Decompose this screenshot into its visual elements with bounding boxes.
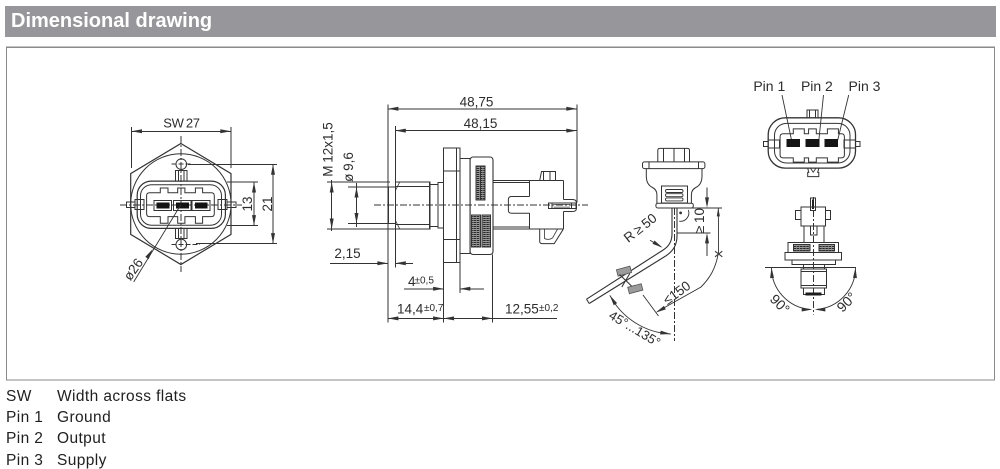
dimension 21 xyxy=(188,164,277,243)
connector block (side view) xyxy=(530,181,564,230)
bottom latch (side view) xyxy=(540,229,564,243)
right 90 deg arc xyxy=(815,268,860,316)
dimension >=10 xyxy=(678,188,723,257)
left front view group xyxy=(120,116,277,284)
dimension 13 xyxy=(227,182,258,226)
small view neck and thread xyxy=(801,265,827,288)
leader pin2 xyxy=(819,95,824,141)
cable xyxy=(587,208,678,304)
extension line flange left xyxy=(443,263,445,323)
leader pin3 xyxy=(838,95,849,141)
connector face outer oval xyxy=(768,118,855,168)
horizontal reference line xyxy=(765,267,856,269)
svg-text:21: 21 xyxy=(260,196,275,211)
ring section xyxy=(460,159,470,254)
connector face inner oval xyxy=(775,123,851,163)
label Pin 1 xyxy=(753,78,785,94)
step before flange xyxy=(438,183,444,229)
knurled housing section xyxy=(470,157,493,255)
svg-text:90°: 90° xyxy=(767,291,793,317)
pin 3 terminal (left view) xyxy=(192,200,210,210)
svg-text:2,15: 2,15 xyxy=(334,246,360,261)
centerline (side view) xyxy=(374,204,588,206)
dimension 48,15 xyxy=(395,116,577,133)
dimension 48,75 xyxy=(388,94,577,111)
hex flange outline SW27 xyxy=(131,144,231,265)
svg-text:ø 9,6: ø 9,6 xyxy=(341,152,356,182)
svg-text:Pin 3: Pin 3 xyxy=(849,78,881,94)
small view upper block xyxy=(796,207,831,226)
svg-text:ø26: ø26 xyxy=(120,256,146,284)
extension line tip face xyxy=(387,104,389,322)
svg-text:Pin 2: Pin 2 xyxy=(801,78,833,94)
svg-text:M 12x1,5: M 12x1,5 xyxy=(320,122,335,176)
dimension 4 +-0,5 xyxy=(404,274,484,291)
centerline horizontal (left view) xyxy=(120,204,242,206)
left latch ear (left view) xyxy=(126,200,144,210)
legend Pin 1 xyxy=(6,409,43,427)
hex flange (side view) xyxy=(444,148,460,263)
pressure port tip o9.6 xyxy=(388,187,395,224)
bottom right front view group xyxy=(765,197,860,317)
bottom keying tab (left view) xyxy=(176,228,187,238)
bend radius center dot and arc xyxy=(679,210,689,221)
top keying tab (left view) xyxy=(176,171,187,182)
centerline (bottom-right view) xyxy=(813,197,815,315)
legend SW xyxy=(6,388,32,406)
cable clamp 2 xyxy=(628,284,643,294)
svg-text:13: 13 xyxy=(240,196,255,211)
small view slot xyxy=(811,226,818,235)
svg-text:≥ 10: ≥ 10 xyxy=(692,208,707,233)
face pin 3 xyxy=(825,139,839,147)
top mounting hole circle xyxy=(172,159,192,170)
dimension o9,6 xyxy=(341,152,396,227)
pin 2 terminal (left view) xyxy=(173,200,191,210)
bottom mounting hole circle xyxy=(172,239,201,250)
housing neck xyxy=(493,181,564,230)
face left latch xyxy=(764,140,780,148)
strain relief grill xyxy=(662,186,688,203)
inscribed circle o26 xyxy=(131,154,231,254)
dimension 45..135 arc xyxy=(606,295,670,350)
svg-text:±0,5: ±0,5 xyxy=(415,276,435,287)
cable bend view group xyxy=(587,148,723,349)
groove behind thread xyxy=(430,185,438,227)
centerline vertical (left view) xyxy=(180,136,182,272)
svg-text:R ≥ 50: R ≥ 50 xyxy=(621,210,660,245)
vertical reference dash line xyxy=(674,208,676,341)
cable collar xyxy=(656,203,693,208)
label Pin 3 xyxy=(849,78,881,94)
connector face view group xyxy=(753,78,880,177)
small view top pin xyxy=(811,198,816,210)
svg-text:12,55: 12,55 xyxy=(505,302,539,317)
svg-text:48,15: 48,15 xyxy=(464,116,498,131)
svg-text:14,4: 14,4 xyxy=(397,302,424,317)
mating connector body xyxy=(646,169,702,204)
label Pin 2 xyxy=(801,78,833,94)
connector outer oval (left view) xyxy=(137,181,225,228)
dimension o26 leader xyxy=(120,205,180,284)
pin shroud tube xyxy=(564,200,577,212)
face pin 2 xyxy=(806,139,820,147)
dimension 2,15 xyxy=(330,246,413,265)
svg-text:≤150: ≤150 xyxy=(660,278,693,308)
legend Pin 2 xyxy=(6,430,43,448)
face pin 1 xyxy=(786,139,800,147)
dimension <=150 curved xyxy=(656,208,723,313)
dimension 12,55 +-0,2 xyxy=(444,302,559,321)
legend Pin 3 xyxy=(6,452,43,469)
small view hex flange xyxy=(785,253,842,265)
svg-text:Pin 1: Pin 1 xyxy=(753,78,785,94)
mating connector top block xyxy=(658,148,690,162)
face bottom tab xyxy=(808,168,819,177)
svg-text:48,75: 48,75 xyxy=(460,94,494,109)
pin 1 terminal (left view) xyxy=(154,200,172,210)
face top tab xyxy=(807,110,818,118)
small view flange bar with knurl xyxy=(788,243,839,253)
terminal pin (side view) xyxy=(549,203,576,209)
drawing border frame xyxy=(7,47,995,380)
leader pin1 xyxy=(782,95,792,141)
side view group xyxy=(320,94,588,322)
svg-text:±0,2: ±0,2 xyxy=(539,303,559,314)
header bar xyxy=(5,6,996,37)
clamp cross lines xyxy=(620,274,632,288)
svg-text:90°: 90° xyxy=(833,289,859,315)
dimension SW27 xyxy=(132,116,231,168)
small view body xyxy=(804,226,824,243)
connector cavity (side view) xyxy=(508,197,529,214)
dimension M12x1.5 xyxy=(320,122,396,231)
connector castellated profile (left view) xyxy=(147,188,215,223)
left 90 deg arc xyxy=(767,268,812,318)
top latch (side view) xyxy=(540,172,556,181)
clamp2 extension line xyxy=(643,295,659,316)
thread M12x1.5 xyxy=(396,182,430,229)
dimension 14,4 +-0,7 xyxy=(388,302,444,321)
extension line right end xyxy=(576,104,578,202)
small view tip xyxy=(803,288,824,296)
connector inner oval (left view) xyxy=(141,185,222,226)
connector face castellated profile xyxy=(780,129,844,162)
mating connector flange bar xyxy=(643,162,705,169)
extension line housing face xyxy=(492,255,494,323)
right latch ear (left view) xyxy=(218,200,236,210)
extension line thread start xyxy=(394,126,396,267)
svg-text:±0,7: ±0,7 xyxy=(424,303,444,314)
cable clamp 1 xyxy=(616,266,631,276)
svg-text:45°...135°: 45°...135° xyxy=(606,307,663,349)
face right latch xyxy=(844,140,860,148)
dimension R>=50 xyxy=(621,210,663,247)
extension line flange right xyxy=(459,263,461,294)
svg-text:SW 27: SW 27 xyxy=(163,116,200,131)
